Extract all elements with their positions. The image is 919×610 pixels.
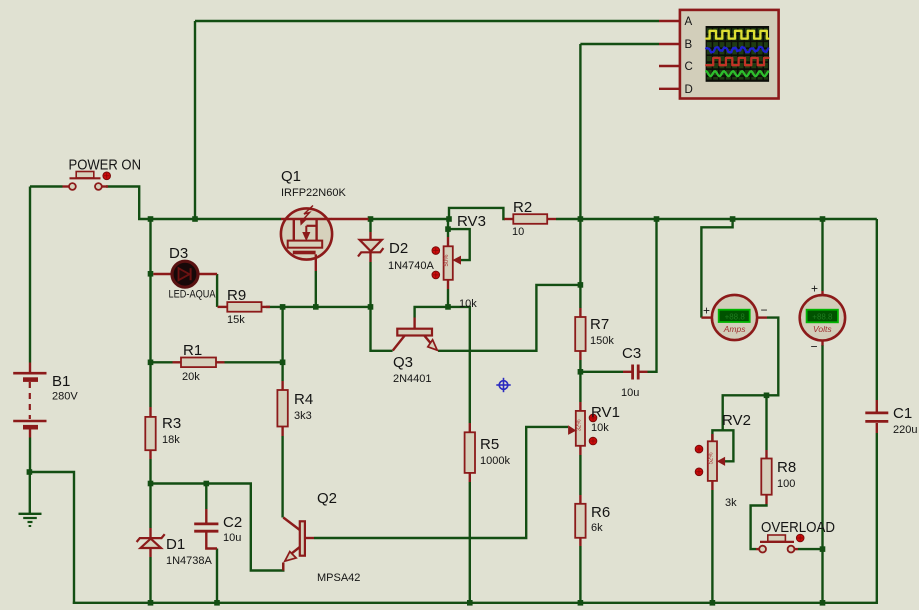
wire scope A vertical: [194, 21, 196, 219]
svg-text:R1: R1: [183, 342, 202, 359]
svg-text:10u: 10u: [223, 532, 241, 544]
junction at 580.4,371.8: [578, 369, 584, 375]
junction at 282.6,362.3: [280, 360, 286, 366]
junction at 150.5,362.3: [148, 360, 154, 366]
svg-text:RV2: RV2: [722, 412, 751, 429]
transistor Q1 source stub: [315, 254, 317, 271]
wire R4 column bottom to Q2 collector: [281, 436, 283, 518]
transistor Q3 base bar: [397, 329, 432, 336]
junction at 449,219: [446, 216, 452, 222]
resistor R6 pin stubs: [579, 495, 581, 504]
svg-text:A: A: [685, 16, 693, 28]
svg-text:LED-AQUA: LED-AQUA: [169, 289, 217, 301]
svg-text:18k: 18k: [162, 434, 180, 446]
oscilloscope pin stubs: [659, 20, 680, 22]
junction at 150.5,219: [148, 216, 154, 222]
wire Volts top lead: [821, 219, 823, 291]
diode D2 pin stubs: [369, 232, 371, 240]
pot RV3 actuator markers: [432, 247, 440, 255]
svg-text:Q2: Q2: [317, 490, 337, 507]
svg-text:D3: D3: [169, 245, 188, 262]
resistor R4 pin stubs: [281, 381, 283, 390]
switch POWER ON lever: [70, 177, 101, 179]
meter Amps minus stub: [757, 316, 767, 318]
junction at 150.5,273.8: [148, 271, 154, 277]
wire RV2 top split: [712, 430, 733, 461]
resistor R7 body: [575, 317, 585, 351]
svg-text:OVERLOAD: OVERLOAD: [761, 520, 835, 536]
pot RV1 wiper arrow: [569, 426, 576, 434]
pot RV1 body: [576, 411, 585, 446]
battery B1 plates: [13, 372, 46, 375]
resistor R8 body: [761, 459, 771, 495]
switch POWER ON actuator marker: [103, 172, 111, 180]
wire battery bottom lead: [29, 438, 31, 473]
wire R8 top lead: [765, 395, 767, 450]
svg-text:R7: R7: [590, 316, 609, 333]
wire C1 bottom column: [876, 433, 878, 604]
resistor R7 pin stubs: [579, 308, 581, 317]
svg-text:B: B: [685, 39, 693, 51]
wire scope B vertical: [579, 44, 581, 219]
wire R7 column rail to body: [579, 219, 581, 308]
LED D3 body: [172, 261, 198, 287]
svg-text:Q1: Q1: [281, 168, 301, 185]
wire overload right to volts column: [798, 548, 823, 550]
wire scope B horizontal: [580, 43, 659, 45]
junction at 195,219: [192, 216, 198, 222]
resistor R6 body: [575, 504, 585, 538]
svg-text:+: +: [811, 282, 818, 296]
junction at 580.4,219: [578, 216, 584, 222]
wire Q3 emitter to R7 column: [438, 285, 580, 351]
wire D2 top lead: [369, 219, 371, 232]
wire RV3 wiper loop: [448, 229, 470, 260]
wire ground stub: [29, 472, 31, 513]
wire C2 bottom jog to rail: [216, 549, 218, 605]
junction at 656.5,219: [654, 216, 660, 222]
capacitor C1 plates: [865, 411, 888, 414]
transistor Q3 collector: [393, 336, 405, 351]
svg-text:10k: 10k: [459, 298, 477, 310]
svg-text:1000k: 1000k: [480, 455, 510, 467]
resistor R5 pin stubs: [469, 423, 471, 432]
svg-text:D: D: [685, 84, 693, 96]
pot RV2 pin stubs: [711, 434, 713, 441]
meter Volts minus stub: [821, 340, 823, 346]
transistor Q1 drain stub: [332, 218, 369, 220]
svg-text:D1: D1: [166, 536, 185, 553]
resistor R3 pin stubs: [149, 407, 151, 417]
meter Amps display: [719, 310, 750, 322]
wire bottom ground rail: [73, 602, 878, 604]
svg-text:1N4738A: 1N4738A: [166, 555, 213, 567]
svg-text:1N4740A: 1N4740A: [388, 260, 435, 272]
junction at 822.5,549.1: [820, 546, 826, 552]
pot RV2 wiper arrow: [718, 458, 725, 465]
junction at 469.8,602.8: [467, 600, 473, 606]
svg-text:150k: 150k: [590, 335, 614, 347]
capacitor C1 pin stubs: [876, 400, 878, 412]
capacitor C2 pin stubs: [205, 509, 207, 523]
wire D1 top lead: [149, 484, 151, 529]
svg-text:RV3: RV3: [457, 213, 486, 230]
svg-text:+88.8: +88.8: [725, 312, 746, 321]
switch OVERLOAD pin circles: [759, 546, 766, 553]
wire Amps minus to RV2/R8: [723, 318, 779, 431]
wire R1 right lead: [225, 361, 283, 363]
pot RV2 actuator markers: [695, 445, 703, 453]
svg-text:2N4401: 2N4401: [393, 373, 432, 385]
svg-text:R6: R6: [591, 504, 610, 521]
wire gate row R9 to D2: [266, 306, 371, 308]
wire RV1 to R6: [579, 455, 581, 495]
resistor R1 pin stubs: [173, 361, 182, 363]
resistor R1 body: [181, 358, 216, 368]
wire switch right to rail corner: [106, 187, 281, 220]
svg-text:R9: R9: [227, 287, 246, 304]
switch POWER ON pin stubs: [63, 185, 70, 187]
svg-text:R4: R4: [294, 391, 313, 408]
LED D3 leads: [153, 273, 172, 275]
junction at 370.5,306.9: [368, 304, 374, 310]
junction at 766.5,395.3: [764, 393, 770, 399]
transistor Q3 base stub: [413, 318, 415, 329]
switch OVERLOAD actuator marker: [796, 534, 804, 542]
wire C2 top lead: [205, 484, 207, 510]
wire R6 bottom: [579, 546, 581, 604]
battery B1 bottom lead: [29, 430, 31, 438]
wire scope A horizontal: [195, 20, 659, 22]
svg-text:Volts: Volts: [813, 324, 832, 334]
resistor R3 body: [145, 417, 155, 450]
svg-text:3k3: 3k3: [294, 410, 312, 422]
svg-text:100: 100: [777, 478, 795, 490]
battery B1 top lead: [29, 363, 31, 373]
junction at 712.4,602.8: [710, 600, 716, 606]
wire D2 node down to Q3 collector: [371, 307, 393, 351]
resistor R9 body: [227, 302, 261, 312]
wire rail jog over R2: [449, 208, 505, 219]
pot RV1 actuator markers: [589, 414, 597, 422]
svg-text:C2: C2: [223, 514, 242, 531]
wire left column D3 to R1: [149, 274, 151, 363]
svg-text:20k: 20k: [182, 371, 200, 383]
resistor R5 wire below: [469, 482, 471, 604]
wire left column R1 to R3: [149, 362, 151, 407]
wire left column switch to battery: [29, 187, 31, 363]
wire node row y483 to Q2 emitter: [151, 484, 284, 571]
wire R3 bottom to node: [149, 459, 151, 484]
svg-text:R3: R3: [162, 415, 181, 432]
junction at 150.5,602.8: [148, 600, 154, 606]
oscilloscope screen: [706, 26, 770, 82]
meter Amps feed plus stub: [701, 316, 712, 318]
junction at 150.5,483.5: [148, 481, 154, 487]
diode D1 pin stubs: [149, 528, 151, 539]
resistor R2 body: [513, 214, 547, 224]
switch OVERLOAD pin stubs: [756, 548, 759, 550]
transistor Q3 emitter with arrow: [425, 336, 431, 343]
wire D1 bottom lead: [149, 557, 151, 604]
junction at 206.3,483.5: [204, 481, 210, 487]
switch POWER ON button: [76, 172, 94, 178]
wire C3 left lead: [580, 371, 623, 373]
pot RV3 body: [444, 246, 453, 279]
LED D3 diode symbol: [179, 268, 190, 280]
wire R7 bottom to C3 node: [579, 360, 581, 402]
switch OVERLOAD button: [768, 535, 786, 541]
junction at 732.6,219: [730, 216, 736, 222]
wire battery bottom to rail: [29, 472, 74, 604]
transistor Q1 internal symbol: [281, 218, 332, 220]
svg-text:R5: R5: [480, 436, 499, 453]
resistor R2 pin stubs: [504, 218, 513, 220]
wire rail R2 to right end: [556, 218, 877, 220]
capacitor C3 plates: [631, 365, 634, 380]
junction at 822.5,219: [820, 216, 826, 222]
ground: [19, 513, 42, 515]
junction at 370.5,219: [368, 216, 374, 222]
svg-text:+88.8: +88.8: [812, 312, 833, 321]
junction at 315.8,306.9: [313, 304, 319, 310]
wire C1 column: [876, 219, 878, 400]
svg-text:IRFP22N60K: IRFP22N60K: [281, 187, 346, 199]
transistor Q2 base stub: [305, 537, 314, 539]
svg-text:50%: 50%: [444, 254, 450, 267]
svg-text:32%: 32%: [576, 419, 582, 432]
junction at 448,229.1: [445, 226, 451, 232]
resistor R5 body: [465, 432, 475, 473]
junction at 29.4,472: [27, 469, 33, 475]
transistor Q2 collector: [283, 518, 300, 531]
svg-text:280V: 280V: [52, 391, 78, 403]
wire R4 column top: [281, 307, 283, 381]
svg-text:C1: C1: [893, 405, 912, 422]
svg-text:+: +: [703, 304, 710, 318]
meter Volts body: [800, 295, 845, 340]
svg-text:6k: 6k: [591, 522, 603, 534]
svg-text:R2: R2: [513, 199, 532, 216]
wire Q1 source lead: [315, 271, 317, 307]
transistor Q1 body circle: [281, 208, 332, 259]
svg-text:MPSA42: MPSA42: [317, 572, 360, 584]
svg-text:C3: C3: [622, 345, 641, 362]
meter Amps body: [712, 295, 757, 340]
wire switch left: [30, 185, 63, 187]
junction at 580.4,602.8: [578, 600, 584, 606]
svg-text:3k: 3k: [725, 497, 737, 509]
wire RV3 bottom lead: [447, 289, 449, 307]
svg-text:−: −: [811, 340, 818, 354]
wire left column rail to D3: [149, 219, 151, 274]
svg-text:220u: 220u: [893, 424, 917, 436]
wire rail Q1 drain to RV3: [369, 218, 450, 220]
svg-text:10k: 10k: [591, 422, 609, 434]
wire RV2 bottom lead: [711, 490, 713, 604]
svg-text:C: C: [685, 61, 693, 73]
junction at 217,602.8: [214, 600, 220, 606]
pot RV3 wiper arrow: [454, 256, 461, 263]
wire Q3 base L: [415, 307, 470, 423]
svg-text:15k: 15k: [227, 314, 245, 326]
svg-text:RV1: RV1: [591, 404, 620, 421]
svg-text:B1: B1: [52, 373, 70, 390]
wire Amps feed from rail: [701, 219, 732, 318]
wire RV1 wiper to Q2 base: [314, 427, 568, 538]
junction at 282.6,306.9: [280, 304, 286, 310]
transistor Q2 base bar: [300, 521, 305, 555]
wire D3 right corner to R9: [216, 274, 218, 307]
resistor R9 pin stubs: [218, 306, 228, 308]
diode D1 symbol: [141, 539, 162, 548]
svg-text:52%: 52%: [708, 452, 714, 465]
pot RV2 body: [708, 441, 717, 481]
origin crosshair marker: [499, 381, 508, 390]
meter Volts plus stub: [821, 291, 823, 296]
wire RV3 top lead: [447, 219, 449, 237]
svg-text:Amps: Amps: [723, 324, 746, 334]
junction at 448,306.9: [445, 304, 451, 310]
wire R1 left lead: [151, 361, 173, 363]
capacitor C3 pin stubs: [623, 371, 632, 373]
wire R8 bottom jog to overload: [751, 504, 767, 549]
junction at 822.5,602.8: [820, 600, 826, 606]
pot RV3 pin stubs: [447, 237, 449, 246]
svg-text:R8: R8: [777, 459, 796, 476]
switch OVERLOAD lever: [760, 541, 794, 543]
wire D2 bottom lead: [369, 262, 371, 307]
svg-text:10u: 10u: [621, 387, 639, 399]
svg-text:Q3: Q3: [393, 354, 413, 371]
wire C3 right lead to rail: [648, 219, 657, 372]
svg-text:10: 10: [512, 226, 524, 238]
wire Volts bottom column: [821, 345, 823, 604]
oscilloscope body: [680, 10, 779, 99]
resistor R4 body: [277, 390, 287, 427]
svg-text:−: −: [761, 303, 768, 317]
switch POWER ON pin circles: [69, 183, 76, 190]
meter Volts display: [807, 310, 838, 323]
resistor R8 pin stubs: [765, 450, 767, 459]
capacitor C2 plates: [194, 523, 218, 526]
diode D2 symbol: [360, 240, 382, 252]
transistor Q2 emitter with arrow: [292, 547, 300, 554]
pot RV1 pin stubs: [579, 402, 581, 411]
junction at 580.4,284.9: [578, 282, 584, 288]
svg-text:D2: D2: [389, 240, 408, 257]
